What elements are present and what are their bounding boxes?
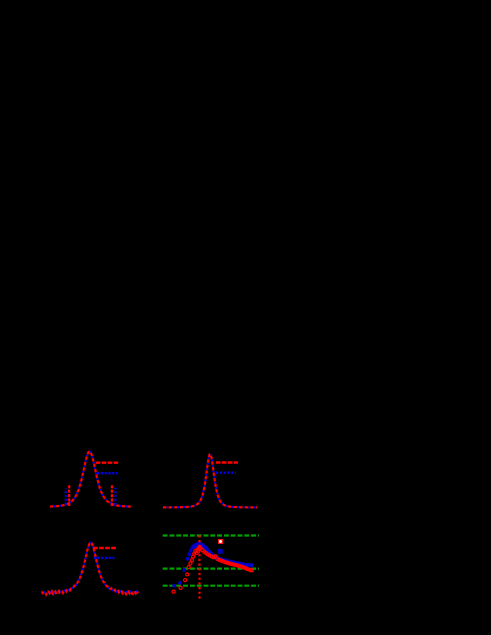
panel1 left red spike xyxy=(68,485,70,506)
panel4 red dotted vline (peak time marker) xyxy=(198,535,200,599)
panel3 PSF blue dotted curve xyxy=(42,543,139,595)
panel2 PSF red dashed curve xyxy=(163,454,257,507)
panel1 left blue spike xyxy=(65,489,67,505)
panel2 PSF blue dotted curve xyxy=(163,454,257,507)
panel1 PSF red dashed curve xyxy=(50,452,131,507)
panel3 PSF red dashed curve xyxy=(42,543,139,595)
panel2 legend red dashed line xyxy=(216,461,238,463)
panel3 legend blue dotted line xyxy=(94,557,115,559)
panel4 green dashed hline bottom xyxy=(163,585,259,587)
panel4 red square marker with white center (legend) xyxy=(218,539,223,544)
panel1 legend blue dotted line xyxy=(97,472,118,474)
panel1 right red spike xyxy=(111,485,113,506)
panel1 PSF blue dotted curve xyxy=(50,452,131,507)
panel4 green dashed hline middle xyxy=(163,567,259,569)
panel4 red open circle data series xyxy=(172,546,253,594)
panel2 legend blue dotted line xyxy=(216,472,236,474)
panel3 legend red dashed line xyxy=(93,547,116,549)
panel1 right blue spike xyxy=(114,488,116,505)
panel4 green dashed hline top xyxy=(163,534,259,536)
panel4 blue filled circle data series xyxy=(172,542,253,588)
panel4 blue square marker (legend) xyxy=(218,549,223,554)
panel1 legend red dashed line xyxy=(96,462,118,464)
